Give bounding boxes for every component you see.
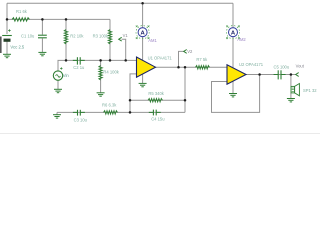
resistor R1 xyxy=(12,18,30,22)
resistor R6 xyxy=(104,111,118,115)
wire V1 probe stem xyxy=(122,39,126,60)
ground below Vin xyxy=(54,89,62,92)
svg-text:C1 10u: C1 10u xyxy=(21,33,35,38)
capacitor C5 xyxy=(274,70,286,79)
wire top supply rail xyxy=(7,2,233,4)
battery V1 Vcc xyxy=(2,36,12,41)
ground below U1 xyxy=(139,83,147,86)
svg-text:C5 100u: C5 100u xyxy=(274,65,290,70)
svg-text:A: A xyxy=(231,31,236,37)
wire U1 -in feedback xyxy=(130,74,137,113)
resistor R2 xyxy=(64,30,68,45)
svg-text:R5 340k: R5 340k xyxy=(148,91,164,96)
ground below R4 xyxy=(97,93,105,96)
wire AM2 to U2 V+ pin xyxy=(232,37,234,69)
ground below speaker xyxy=(287,99,295,102)
svg-text:U2 OPA4171: U2 OPA4171 xyxy=(239,62,264,67)
wire Vin gnd stem xyxy=(57,80,59,89)
voltage pin Vout xyxy=(296,73,299,77)
wire U2 feedback loop xyxy=(212,75,260,113)
wire battery to top rail xyxy=(6,3,8,34)
wire R6 C3 row to ground xyxy=(57,111,130,113)
source Vin xyxy=(53,67,62,80)
wire AM2 branch upper xyxy=(232,3,234,27)
svg-text:C2 1u: C2 1u xyxy=(73,65,85,70)
wire stage1 output drop xyxy=(184,67,186,112)
left edge artifact xyxy=(0,37,2,54)
svg-text:Vin: Vin xyxy=(63,73,70,78)
svg-text:R4 100k: R4 100k xyxy=(103,70,119,75)
capacitor C3 xyxy=(73,110,85,116)
wire battery gnd stem xyxy=(6,42,8,55)
op-amp U2 xyxy=(227,65,246,84)
ground stage1 bottom xyxy=(53,115,61,118)
capacitor C1 xyxy=(38,35,47,38)
ammeter AM2 xyxy=(226,25,240,39)
ground below U2 xyxy=(229,94,237,97)
wire U2 output row xyxy=(246,74,296,76)
wire R5 feedback row xyxy=(130,99,185,101)
capacitor C2 xyxy=(73,57,85,64)
svg-text:V1: V1 xyxy=(123,33,129,38)
wire speaker branch xyxy=(290,75,292,87)
svg-text:AM1: AM1 xyxy=(148,38,157,43)
wire signal row to U1 +in xyxy=(58,60,137,70)
capacitor C4 xyxy=(149,110,161,116)
svg-text:Vcc 2.5: Vcc 2.5 xyxy=(10,45,25,50)
wire R3 branch xyxy=(109,19,111,60)
voltage pin V1 xyxy=(119,37,122,41)
svg-text:R6 6.3k: R6 6.3k xyxy=(102,103,117,108)
wire AM1 branch upper xyxy=(142,3,144,27)
voltage pin V2 xyxy=(184,50,187,54)
resistor R7 xyxy=(196,66,210,70)
speaker SP1 xyxy=(291,84,299,96)
svg-text:C3 10u: C3 10u xyxy=(74,117,88,122)
wire AM1 to U1 V+ pin xyxy=(142,37,144,62)
svg-text:R1 6k: R1 6k xyxy=(16,9,28,14)
wire C4 row xyxy=(130,111,185,113)
svg-text:AM2: AM2 xyxy=(237,37,246,42)
wire V2 probe stem xyxy=(179,51,184,67)
svg-text:R2 10k: R2 10k xyxy=(70,34,84,39)
ground below C1 xyxy=(38,52,46,55)
svg-text:Vout: Vout xyxy=(296,64,305,69)
svg-text:R3 100k: R3 100k xyxy=(93,34,109,39)
svg-text:SP1 32: SP1 32 xyxy=(303,88,317,93)
svg-text:U1 OPA4171: U1 OPA4171 xyxy=(148,56,173,61)
ground below battery xyxy=(3,54,11,57)
ammeter AM1 xyxy=(136,25,150,39)
svg-text:V2: V2 xyxy=(187,49,193,54)
junction dots xyxy=(141,2,144,4)
wire U1 output row xyxy=(156,66,228,68)
op-amp U1 xyxy=(137,57,156,77)
resistor R4 xyxy=(99,66,103,81)
wire R1 rail y=19 xyxy=(7,18,110,20)
resistor R5 xyxy=(148,98,163,102)
svg-text:R7 5k: R7 5k xyxy=(196,57,208,62)
wire R2 branch xyxy=(65,19,67,60)
wire C1 branch xyxy=(41,19,43,34)
sheet bottom edge line xyxy=(0,133,320,135)
svg-text:A: A xyxy=(140,31,145,37)
wire R4 branch xyxy=(100,60,102,92)
wire U1 gnd stem xyxy=(142,72,144,83)
svg-text:C4 15u: C4 15u xyxy=(151,117,165,122)
resistor R3 xyxy=(108,30,112,45)
wire U2 gnd stem xyxy=(232,80,234,94)
